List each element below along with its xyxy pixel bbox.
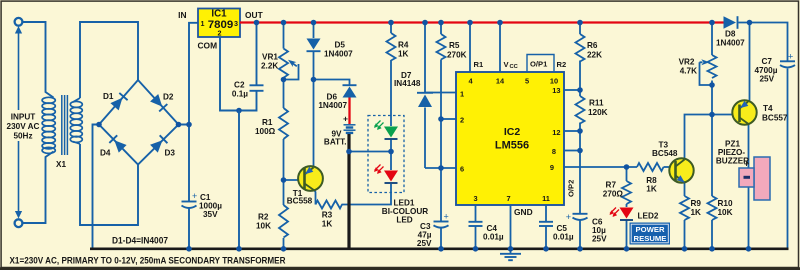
node: pin8 junction: [577, 148, 583, 154]
svg-text:0.01µ: 0.01µ: [483, 233, 504, 242]
node: VR1 wiper junction: [281, 77, 287, 83]
wire: O/P1 link pin5 to pin10: [527, 55, 554, 73]
svg-text:R7: R7: [606, 181, 617, 190]
svg-text:4.7K: 4.7K: [680, 67, 697, 76]
resistor R7 270ohm: [622, 181, 631, 204]
node: battery line junction: [346, 149, 352, 155]
secondary coil leads: [73, 98, 80, 144]
VR1 wiper arm: [286, 62, 299, 80]
wire: IC1 COM pin down: [220, 37, 257, 111]
wire: C2 top to +9V rail: [256, 23, 258, 86]
transistor T4 BC557: [732, 100, 756, 124]
node: T4 base / R10 junction: [709, 112, 715, 118]
input terminal top: [15, 18, 23, 26]
capacitor C1: [182, 202, 197, 209]
wire: D6 anode to battery + (red): [348, 98, 350, 125]
svg-text:10: 10: [550, 77, 558, 86]
svg-text:120K: 120K: [588, 108, 608, 117]
svg-text:0.01µ: 0.01µ: [553, 233, 574, 242]
svg-text:R9: R9: [691, 199, 702, 208]
SECTION-B: [23, 22, 199, 248]
resistor R6 22K: [576, 34, 585, 62]
svg-text:1K: 1K: [691, 208, 702, 217]
wire: R2 to ground rail: [283, 238, 285, 248]
svg-text:D1-D4=IN4007: D1-D4=IN4007: [112, 235, 168, 246]
wire: IC2 pin1 to D7 cathode: [425, 92, 456, 94]
wire: pin8 stub: [564, 150, 580, 152]
svg-text:R5: R5: [449, 41, 460, 50]
wire: C5 to ground rail: [545, 226, 547, 248]
node: D8 out / T4 emitter junction: [747, 20, 753, 26]
node: D5/D6/T1 emitter junction: [311, 77, 317, 83]
wire: T4 emitter from node down: [749, 23, 751, 102]
svg-text:1K: 1K: [398, 50, 409, 59]
transistor T3 BC548: [669, 158, 693, 182]
svg-text:1K: 1K: [646, 185, 657, 194]
svg-text:2.2K: 2.2K: [261, 62, 278, 71]
SECTION-F: [425, 23, 546, 249]
resistor R3 1K: [316, 201, 343, 209]
node: T1 base junction: [281, 177, 287, 183]
node: pin6 junction: [438, 165, 444, 171]
svg-text:D2: D2: [163, 93, 174, 102]
node: pin2 junction: [438, 116, 444, 122]
wire: LED1 green cathode to mid node to red anode: [390, 139, 392, 171]
node: LED1 common junction: [388, 149, 394, 155]
wire: pin13 stub: [564, 89, 580, 91]
wire: top input terminal to primary top: [23, 22, 54, 98]
wire: R10 branch down from T4 base line: [711, 115, 713, 197]
svg-text:100Ω: 100Ω: [255, 127, 276, 136]
svg-text:2: 2: [460, 116, 464, 125]
wire: C1 bottom lead to ground rail: [188, 209, 190, 249]
transformer X1 secondary coil: [70, 101, 82, 142]
svg-text:C2: C2: [234, 81, 245, 90]
resistor R10 10K: [708, 196, 717, 220]
wire: R6 branch from rail: [579, 23, 581, 35]
resistor R2 10K: [279, 205, 288, 238]
svg-text:10K: 10K: [256, 222, 271, 231]
svg-text:25V: 25V: [592, 235, 607, 244]
diode D2: [150, 94, 167, 111]
wire: pin3 to C4: [475, 205, 477, 222]
wire: D8 cathode to C7 corner, down T4 emitter: [739, 23, 788, 62]
wire: R11 bottom to pin12/pin8: [579, 123, 581, 151]
diode D5 1N4007: [307, 39, 321, 50]
timer IC2 LM556: [456, 72, 564, 205]
svg-text:BATT.: BATT.: [324, 138, 347, 147]
svg-text:D3: D3: [165, 149, 176, 158]
svg-text:GND: GND: [514, 207, 533, 217]
diode D8 1N4007: [724, 16, 737, 29]
diode D3: [150, 135, 167, 152]
potentiometer VR1 2.2K: [279, 49, 288, 78]
svg-text:+: +: [192, 191, 197, 201]
svg-text:D1: D1: [103, 92, 114, 101]
svg-text:LED: LED: [396, 216, 412, 225]
svg-text:1N4007: 1N4007: [716, 39, 745, 48]
capacitor C4: [469, 222, 483, 226]
wire: +9V red rail from IC1 OUT to D8: [240, 21, 724, 23]
wire: pin12 stub: [564, 130, 580, 132]
wire: D5 branch from rail: [313, 23, 315, 39]
svg-text:T4: T4: [763, 104, 773, 113]
wire: LED1 mid node to battery minus line: [349, 151, 391, 153]
diode D7 IN4148: [418, 95, 432, 108]
wire: C7 down to ground rail: [787, 69, 789, 249]
ground symbol: [500, 249, 521, 260]
svg-text:35V: 35V: [203, 210, 218, 219]
wire: R8 to T3 base: [664, 166, 676, 168]
capacitor C6 (electrolytic): [573, 214, 588, 220]
svg-text:BC557: BC557: [762, 114, 788, 123]
svg-text:2: 2: [218, 29, 222, 38]
svg-text:12: 12: [552, 128, 560, 137]
SECTION-G: [564, 23, 739, 249]
svg-text:230V AC: 230V AC: [7, 122, 40, 131]
SECTION-E: [349, 23, 396, 171]
svg-text:D4: D4: [100, 149, 111, 158]
transformer X1 primary coil: [42, 97, 55, 153]
svg-text:1N4007: 1N4007: [324, 50, 353, 59]
svg-text:POWER: POWER: [635, 225, 664, 234]
svg-text:O/P1: O/P1: [530, 60, 548, 69]
svg-text:1: 1: [460, 90, 464, 99]
svg-text:+: +: [343, 114, 348, 124]
svg-text:D8: D8: [725, 30, 736, 39]
node: VR2 wiper junction: [709, 82, 715, 88]
wire: secondary top loop to bridge top vertex: [80, 22, 138, 98]
diode D4: [109, 135, 126, 152]
svg-text:22K: 22K: [587, 51, 602, 60]
SECTION-H: [700, 23, 788, 249]
wire: R7 to LED2: [626, 204, 628, 207]
battery 9V: [344, 125, 356, 133]
node: C1 top junction: [186, 122, 192, 128]
svg-text:1: 1: [201, 19, 205, 28]
LED1 red half: [384, 171, 398, 182]
wire: C6 to ground rail: [579, 220, 581, 248]
VR2 wiper arm: [700, 62, 713, 85]
diode D1: [110, 93, 127, 110]
LED2 red: [620, 208, 634, 219]
svg-text:5: 5: [525, 77, 529, 86]
svg-text:8: 8: [552, 147, 556, 156]
svg-text:BC558: BC558: [287, 197, 313, 206]
wire: VR2 bottom to T4 base line: [711, 81, 713, 115]
wire: R9 to ground rail: [684, 220, 686, 248]
resistor R8 1K: [637, 163, 664, 171]
wire: C3 to ground rail: [440, 228, 442, 248]
wire: IC2 pin4 stub: [469, 23, 471, 73]
wire: bridge right vertex to C1/IC1 node: [179, 23, 199, 201]
wire: T1 base: [284, 179, 305, 181]
capacitor C2: [250, 85, 264, 91]
svg-text:RESUME: RESUME: [634, 234, 667, 243]
svg-text:C7: C7: [762, 57, 773, 66]
resistor R9 1K: [680, 196, 689, 220]
wire: R6 to pin13 junction: [579, 61, 581, 97]
top rail junction dots: [254, 20, 583, 26]
node: pin13 junction: [577, 87, 583, 93]
svg-text:1K: 1K: [322, 220, 333, 229]
wire: buzzer to ground rail: [748, 187, 750, 248]
svg-text:9: 9: [550, 163, 554, 172]
svg-text:COM: COM: [198, 41, 218, 51]
svg-text:50Hz: 50Hz: [13, 131, 32, 140]
wire: pin7 to ground rail: [510, 205, 512, 248]
svg-text:X1=230V AC, PRIMARY TO 0-12V,: X1=230V AC, PRIMARY TO 0-12V, 250mA SECO…: [10, 255, 286, 266]
svg-text:CC: CC: [510, 64, 519, 70]
wire: IC2 pin2: [441, 118, 456, 120]
wire: T1 collector down to R3: [315, 191, 316, 205]
rail junction dots: [186, 246, 751, 252]
wire: R4 branch from rail: [390, 23, 392, 34]
svg-text:+: +: [788, 52, 793, 62]
wire: secondary bottom around to bridge bottom vertex: [80, 144, 138, 225]
svg-text:3: 3: [234, 19, 238, 28]
wire: pin6 horizontal: [425, 167, 456, 169]
svg-text:270Ω: 270Ω: [603, 190, 624, 199]
wire: VR1 to R1: [283, 78, 285, 109]
transformer X1 core: [62, 95, 68, 155]
wire: T3 collector up and over to T4 base: [685, 115, 740, 159]
svg-text:IC2: IC2: [504, 126, 521, 138]
svg-text:VR2: VR2: [679, 58, 695, 67]
SECTION-D: [279, 23, 391, 249]
node: bridge left vertex: [96, 122, 102, 128]
wire: bridge left vertex stub to ground rail: [93, 125, 100, 249]
wire: D5 cathode to node, node to D6, node down to T1 emitter: [314, 52, 350, 167]
svg-text:IN: IN: [178, 10, 186, 20]
pin numbers IC2: [460, 77, 561, 204]
wire: T4 collector down to buzzer: [748, 124, 750, 169]
svg-text:+: +: [744, 159, 749, 169]
svg-text:VR1: VR1: [262, 53, 278, 62]
wire: IC2 pin14 stub: [499, 23, 501, 73]
svg-text:R1: R1: [474, 60, 484, 69]
svg-text:25V: 25V: [417, 239, 432, 248]
svg-text:3: 3: [473, 194, 477, 203]
svg-text:IC1: IC1: [211, 9, 227, 20]
piezo buzzer PZ1: [754, 157, 770, 200]
ground rail: [90, 248, 789, 251]
wire: VR1 branch from rail: [283, 23, 285, 49]
svg-text:X1: X1: [56, 160, 66, 169]
wire: pin11 to C5: [545, 205, 547, 222]
capacitor C7 4700u (electrolytic): [780, 61, 795, 67]
svg-text:R2: R2: [557, 60, 567, 69]
wire: R10 to ground rail: [711, 220, 713, 248]
svg-text:OUT: OUT: [245, 10, 264, 20]
wire: T3 emitter down to R9: [684, 183, 686, 197]
svg-text:14: 14: [496, 77, 505, 86]
resistor R5 270K: [437, 34, 446, 60]
wire: R1 to T1 base node to R2: [283, 139, 285, 205]
resistor R4 1K: [387, 33, 396, 61]
transistor T1 BC558: [298, 166, 323, 191]
wire: R7 branch down: [626, 167, 628, 181]
wire: R3 to LED1 red cathode: [342, 184, 392, 205]
wire: VR2 branch from rail: [711, 23, 713, 56]
svg-text:O/P2: O/P2: [567, 180, 576, 197]
svg-text:INPUT: INPUT: [11, 113, 36, 122]
svg-text:7: 7: [506, 194, 510, 203]
svg-text:D5: D5: [335, 41, 346, 50]
bridge arms: [99, 80, 179, 165]
svg-text:R1: R1: [262, 118, 273, 127]
svg-text:0.1µ: 0.1µ: [232, 90, 248, 99]
svg-text:R10: R10: [718, 199, 733, 208]
svg-text:1N4007: 1N4007: [318, 101, 347, 110]
node: COM ground drop junction: [236, 108, 242, 114]
input terminal bottom: [15, 219, 23, 227]
wire: D7 anode down to pin6 wire: [424, 108, 426, 169]
wire: R5 branch from rail: [440, 23, 442, 35]
resistor R11 120K: [576, 96, 585, 124]
wire: C4 to ground rail: [475, 226, 477, 248]
svg-text:R11: R11: [589, 99, 604, 108]
svg-text:R3: R3: [322, 211, 333, 220]
svg-text:270K: 270K: [447, 51, 467, 60]
LED1 green half: [384, 127, 398, 138]
node: VR2 rail junction: [709, 20, 715, 26]
wire: pin9 output to R8: [564, 166, 637, 168]
wire: LED2 cathode to ground rail: [626, 221, 628, 249]
wire: bottom input terminal to primary bottom: [23, 152, 54, 224]
input AC arrow line: [15, 26, 22, 219]
svg-text:25V: 25V: [760, 75, 775, 84]
resistor R1 100ohm: [279, 108, 288, 139]
node: bridge right vertex: [176, 122, 182, 128]
svg-text:IN4148: IN4148: [394, 79, 421, 88]
diode D6 1N4007: [343, 87, 357, 98]
svg-text:R2: R2: [258, 213, 269, 222]
svg-text:13: 13: [552, 86, 560, 95]
svg-text:LM556: LM556: [495, 140, 529, 152]
wire: battery minus to ground rail (thick black): [347, 134, 350, 249]
svg-text:LED2: LED2: [638, 212, 659, 221]
wire: R5 down through pin2/pin6 junctions to C3: [440, 60, 442, 222]
node: pin12 junction: [577, 128, 583, 134]
capacitor C3 (electrolytic): [434, 222, 449, 228]
wire: COM net to ground rail: [238, 111, 240, 249]
regulator IC1 7809: [198, 9, 240, 38]
svg-text:R4: R4: [398, 41, 409, 50]
wire: pin8 junction down to C6: [579, 151, 581, 214]
wire: R4 to LED1 green anode: [390, 60, 392, 126]
potentiometer VR2 4.7K: [708, 55, 717, 78]
svg-text:6: 6: [460, 165, 464, 174]
wire: D7 branch from rail to pin1 wire: [424, 23, 426, 93]
node: R7 branch junction: [624, 164, 630, 170]
svg-text:+: +: [444, 212, 449, 222]
svg-text:BC548: BC548: [652, 149, 678, 158]
svg-text:+: +: [566, 212, 571, 222]
capacitor C5: [539, 222, 553, 226]
svg-text:R6: R6: [587, 41, 598, 50]
svg-text:11: 11: [542, 194, 550, 203]
POWER RESUME box: [630, 223, 671, 245]
svg-text:10K: 10K: [718, 208, 733, 217]
dashed enclosure LED1: [368, 116, 404, 193]
